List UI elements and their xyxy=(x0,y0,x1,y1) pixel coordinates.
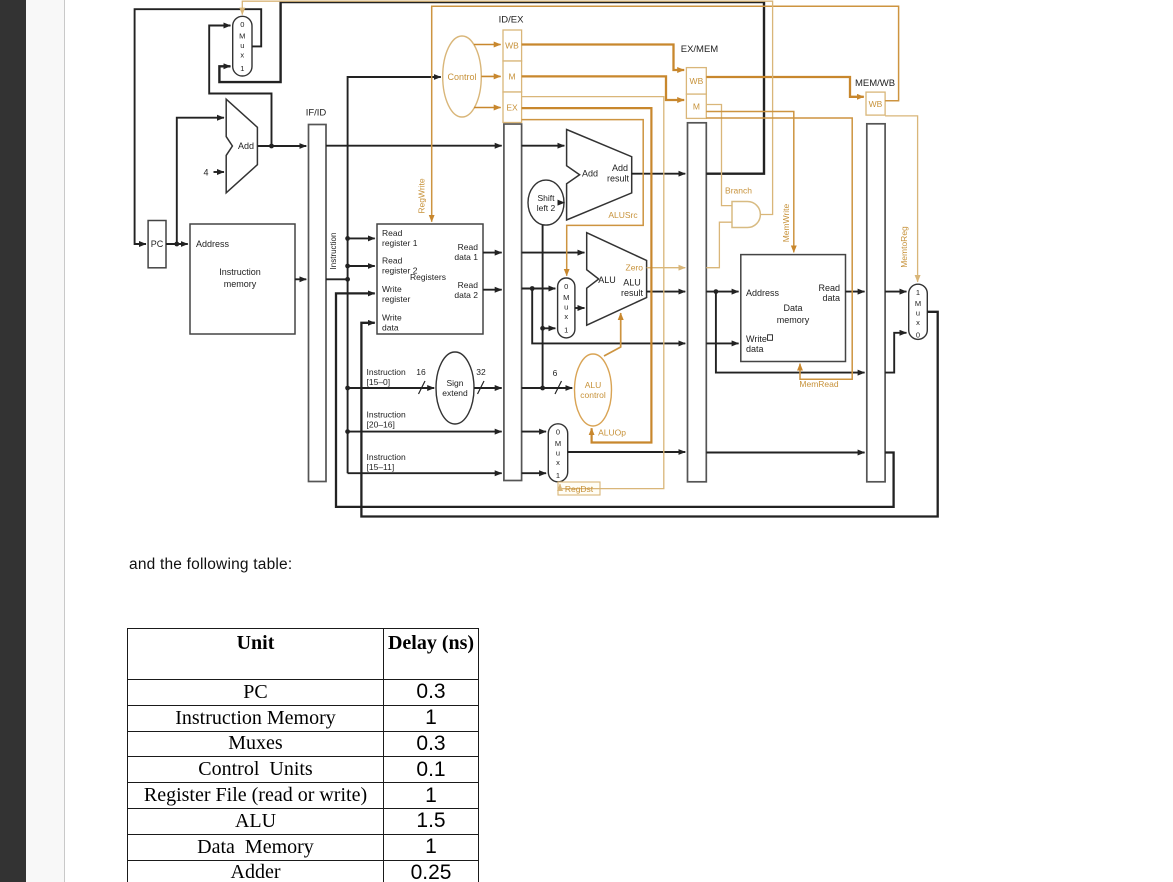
svg-text:[15–0]: [15–0] xyxy=(367,377,391,387)
svg-text:x: x xyxy=(556,458,560,467)
wire read data 1 to ID/EX xyxy=(483,252,502,254)
control box EX of ID/EX xyxy=(503,92,522,123)
adder Add (PC+4) xyxy=(226,99,257,193)
wire read data to MEM/WB xyxy=(846,291,865,293)
instruction memory box xyxy=(190,224,295,334)
wire instruction to read register 1 xyxy=(348,237,375,239)
ALU control oval xyxy=(575,354,612,426)
svg-text:u: u xyxy=(564,303,568,312)
svg-text:data: data xyxy=(822,293,840,303)
sign extend oval xyxy=(436,352,474,424)
svg-text:MemtoReg: MemtoReg xyxy=(899,226,909,268)
PC box xyxy=(148,221,166,268)
control box WB of MEM/WB xyxy=(866,92,885,115)
node instr 15-0 xyxy=(345,386,350,391)
svg-text:Instruction: Instruction xyxy=(219,267,261,277)
svg-text:RegWrite: RegWrite xyxy=(417,178,427,214)
svg-text:Add: Add xyxy=(612,163,628,173)
wire RegDst mux to EX/MEM xyxy=(568,451,686,453)
svg-text:M: M xyxy=(693,102,700,112)
wire ALUSrc mux to ALU xyxy=(575,307,585,309)
wire instruction 20-16 to ID/EX xyxy=(348,431,502,433)
svg-text:MEM/WB: MEM/WB xyxy=(855,78,895,89)
wire control to M xyxy=(481,75,500,77)
mux PCSrc xyxy=(233,16,252,76)
svg-text:u: u xyxy=(240,41,244,50)
wire ALU result EX/MEM to address xyxy=(706,291,738,293)
svg-text:x: x xyxy=(916,318,920,327)
wire WB chain ID/EX to EX/MEM xyxy=(522,45,685,71)
svg-text:[20–16]: [20–16] xyxy=(367,420,395,430)
wire PC+4 ID/EX to branch adder xyxy=(522,145,565,147)
wire read data MEM/WB to mux 1 xyxy=(885,291,906,293)
svg-text:ALU: ALU xyxy=(623,278,641,288)
svg-text:32: 32 xyxy=(476,367,486,377)
wire MemtoReg to mux xyxy=(885,116,918,282)
svg-text:register 1: register 1 xyxy=(382,238,418,248)
DIAGRAM SVG GOES HERE xyxy=(0,0,1173,545)
wire immediate ID/EX to ALU control xyxy=(522,387,573,389)
wire Zero EX/MEM to AND gate xyxy=(706,222,732,268)
svg-text:RegDst: RegDst xyxy=(565,484,594,494)
control box WB of ID/EX xyxy=(503,30,522,61)
wire MemWrite to data memory xyxy=(706,112,794,253)
svg-text:Add: Add xyxy=(582,169,598,179)
wire PCSrc AND gate to PC mux xyxy=(242,1,772,214)
wire add output to IF/ID xyxy=(257,145,306,147)
wire branch target from EX/MEM to mux 1 input xyxy=(219,2,764,174)
svg-text:M: M xyxy=(508,72,515,82)
wire branch adder result to EX/MEM xyxy=(632,173,686,175)
wire ALUOp to ALU control xyxy=(522,108,652,442)
svg-text:memory: memory xyxy=(224,279,257,289)
wire mux output to PC xyxy=(135,9,262,244)
svg-text:Read: Read xyxy=(458,280,479,290)
svg-text:Write: Write xyxy=(382,313,402,323)
wire read data 2 to ID/EX xyxy=(483,289,502,291)
mux MemtoReg xyxy=(909,284,928,339)
svg-text:0: 0 xyxy=(564,282,568,291)
wire instruction 15-11 to ID/EX xyxy=(348,472,502,474)
wire RegDst to mux xyxy=(522,97,664,489)
node immediate split xyxy=(540,386,545,391)
svg-text:EX: EX xyxy=(506,103,518,113)
svg-text:ALUOp: ALUOp xyxy=(598,428,626,438)
wire PC to instruction memory address xyxy=(166,243,188,245)
wire ALU result to EX/MEM xyxy=(647,291,686,293)
svg-text:ALU: ALU xyxy=(598,275,616,285)
svg-text:PC: PC xyxy=(151,239,164,249)
slash 32 bits xyxy=(478,381,485,394)
node instr main xyxy=(345,277,350,282)
adder Add result (branch) xyxy=(567,130,632,221)
svg-text:Read: Read xyxy=(818,283,840,293)
svg-text:Data: Data xyxy=(783,303,802,313)
svg-text:1: 1 xyxy=(564,326,568,335)
svg-text:control: control xyxy=(580,390,606,400)
data memory box xyxy=(741,255,846,362)
registers box xyxy=(377,224,483,334)
wire EX/MEM write data to data memory xyxy=(706,342,738,344)
wire shift left 2 to branch adder xyxy=(563,202,566,204)
wire ALU control to ALU xyxy=(604,313,621,356)
svg-text:Address: Address xyxy=(196,239,230,249)
mux ALUSrc xyxy=(558,278,575,338)
slash 6 bits xyxy=(555,381,562,394)
svg-text:WB: WB xyxy=(869,99,883,109)
wire sign extend to ID/EX xyxy=(474,387,502,389)
wire RegWrite loop to registers xyxy=(432,6,899,222)
wire instruction memory to IF/ID xyxy=(295,278,306,280)
wire ALU result bypass to MEM/WB xyxy=(716,292,865,373)
svg-text:Instruction: Instruction xyxy=(367,367,406,377)
svg-text:16: 16 xyxy=(416,367,426,377)
wire instruction to read register 2 xyxy=(348,265,375,267)
svg-text:EX/MEM: EX/MEM xyxy=(681,44,719,55)
svg-text:data: data xyxy=(382,323,399,333)
svg-text:MemWrite: MemWrite xyxy=(781,203,791,242)
wire control to WB xyxy=(474,44,501,46)
wire read data 2 ID/EX to ALUSrc mux 0 xyxy=(522,288,556,290)
svg-text:Zero: Zero xyxy=(626,263,644,273)
svg-text:M: M xyxy=(239,32,245,41)
svg-text:1: 1 xyxy=(240,64,244,73)
wire PC+4 IF/ID to ID/EX xyxy=(326,145,502,147)
wire write register num loop back to registers xyxy=(336,293,894,507)
node read data 2 split xyxy=(530,286,535,291)
wire IF/ID instruction out xyxy=(326,278,348,280)
svg-text:ID/EX: ID/EX xyxy=(499,15,524,26)
svg-text:1: 1 xyxy=(556,471,560,480)
wire Branch to AND gate xyxy=(706,105,732,206)
wire M chain ID/EX to EX/MEM xyxy=(522,76,685,100)
svg-text:Instruction: Instruction xyxy=(367,452,406,462)
svg-text:Shift: Shift xyxy=(537,193,555,203)
svg-text:data 1: data 1 xyxy=(454,252,478,262)
svg-text:WB: WB xyxy=(690,76,704,86)
pipeline register MEM/WB xyxy=(867,124,885,482)
svg-text:data 2: data 2 xyxy=(454,290,478,300)
control box M of ID/EX xyxy=(503,61,522,92)
wire PC to Add input xyxy=(177,118,224,244)
AND gate (branch) xyxy=(732,202,760,228)
svg-text:6: 6 xyxy=(553,368,558,378)
svg-text:Read: Read xyxy=(382,228,403,238)
ALU xyxy=(587,233,647,326)
svg-text:x: x xyxy=(240,51,244,60)
node instr 20-16 xyxy=(345,429,350,434)
svg-text:u: u xyxy=(556,449,560,458)
mux PCSrc digits xyxy=(239,20,921,480)
svg-text:result: result xyxy=(607,174,630,184)
wire write register num EX/MEM to MEM/WB xyxy=(706,452,864,454)
node add output xyxy=(269,144,274,149)
svg-text:M: M xyxy=(555,439,561,448)
svg-text:Instruction: Instruction xyxy=(367,410,406,420)
wire instruction 15-11 ID/EX to RegDst mux 1 xyxy=(522,472,547,474)
RegDst label box xyxy=(558,482,600,495)
wire ALUSrc to mux xyxy=(522,120,644,276)
svg-text:ALUSrc: ALUSrc xyxy=(608,210,638,220)
svg-text:x: x xyxy=(564,312,568,321)
svg-text:Add: Add xyxy=(238,141,254,151)
wire add output to mux 0 input xyxy=(209,26,271,147)
svg-text:Read: Read xyxy=(458,242,479,252)
svg-text:Write: Write xyxy=(746,334,767,344)
svg-text:u: u xyxy=(916,309,920,318)
svg-text:Sign: Sign xyxy=(446,378,463,388)
svg-text:Write: Write xyxy=(382,284,402,294)
wire read data 1 ID/EX to ALU xyxy=(522,252,585,254)
svg-text:WB: WB xyxy=(505,41,519,51)
svg-text:Control: Control xyxy=(447,72,476,82)
svg-text:ALU: ALU xyxy=(585,380,602,390)
control box WB of EX/MEM xyxy=(686,68,706,95)
wire Zero to EX/MEM xyxy=(647,267,686,269)
wire constant 4 to Add xyxy=(214,171,225,173)
wire write back mux to registers write data xyxy=(361,312,937,517)
control box M of EX/MEM xyxy=(686,94,706,118)
svg-text:extend: extend xyxy=(442,388,468,398)
svg-text:left 2: left 2 xyxy=(537,203,556,213)
wire instruction vertical bus xyxy=(348,77,441,473)
control unit oval U-Control xyxy=(443,36,482,117)
svg-text:MemRead: MemRead xyxy=(799,379,838,389)
pipeline register ID/EX xyxy=(504,124,522,481)
node instr rr1 xyxy=(345,236,350,241)
wire immediate to ALUSrc mux 1 xyxy=(543,327,556,329)
wire ALU result MEM/WB to mux 0 xyxy=(885,333,906,373)
wire control to EX xyxy=(474,107,501,109)
node ALU result split xyxy=(714,289,719,294)
wire instruction 15-0 to sign extend xyxy=(348,387,435,389)
node instr rr2 xyxy=(345,264,350,269)
svg-text:register: register xyxy=(382,294,411,304)
svg-text:Address: Address xyxy=(746,288,780,298)
svg-text:result: result xyxy=(621,288,644,298)
svg-text:0: 0 xyxy=(240,20,244,29)
mux RegDst xyxy=(548,424,567,482)
svg-text:M: M xyxy=(563,293,569,302)
svg-text:1: 1 xyxy=(916,288,920,297)
svg-text:memory: memory xyxy=(777,315,810,325)
svg-text:Branch: Branch xyxy=(725,186,752,196)
svg-text:Instruction: Instruction xyxy=(329,233,338,270)
shift left 2 oval xyxy=(528,180,564,225)
node PC out xyxy=(174,242,179,247)
svg-text:Read: Read xyxy=(382,256,403,266)
wire instruction 20-16 ID/EX to RegDst mux 0 xyxy=(522,431,547,433)
wire immediate up to shift left 2 xyxy=(542,225,544,388)
svg-text:Registers: Registers xyxy=(410,272,446,282)
wire WB chain EX/MEM to MEM/WB xyxy=(706,77,864,97)
svg-text:0: 0 xyxy=(556,428,560,437)
svg-text:M: M xyxy=(915,299,921,308)
slash 16 bits xyxy=(419,381,426,394)
pipeline register EX/MEM xyxy=(688,123,707,482)
wire read data 2 down to EX/MEM write data xyxy=(532,289,685,344)
svg-text:IF/ID: IF/ID xyxy=(306,108,327,119)
svg-text:4: 4 xyxy=(203,168,208,178)
svg-text:[15–11]: [15–11] xyxy=(367,462,395,472)
svg-text:data: data xyxy=(746,344,764,354)
svg-text:0: 0 xyxy=(916,331,920,340)
node immediate mux branch xyxy=(540,326,545,331)
write data square artifact xyxy=(768,335,773,341)
wire MemRead to data memory xyxy=(706,118,852,379)
pipeline register IF/ID xyxy=(309,125,327,482)
